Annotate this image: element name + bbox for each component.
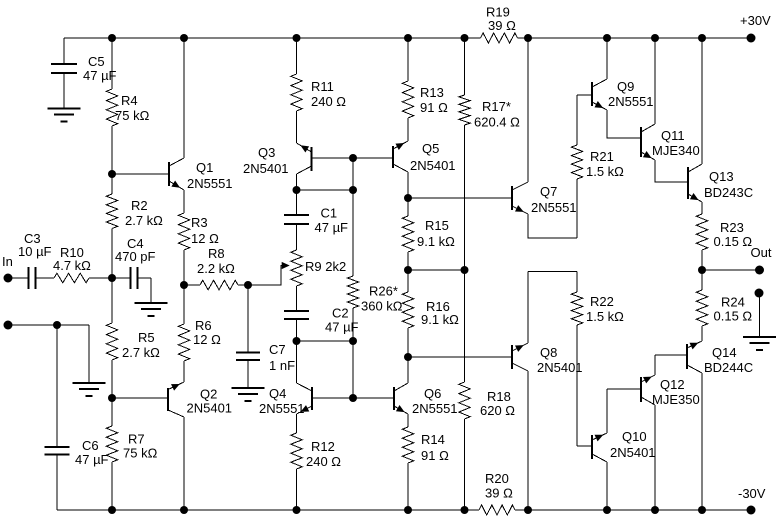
- svg-text:0.15 Ω: 0.15 Ω: [714, 234, 753, 249]
- svg-text:47 µF: 47 µF: [75, 452, 109, 467]
- svg-text:R13: R13: [420, 85, 444, 100]
- svg-text:12 Ω: 12 Ω: [193, 332, 221, 347]
- svg-text:91 Ω: 91 Ω: [421, 448, 449, 463]
- svg-text:12 Ω: 12 Ω: [191, 231, 219, 246]
- svg-text:Q8: Q8: [540, 345, 557, 360]
- svg-text:39 Ω: 39 Ω: [488, 18, 516, 33]
- svg-text:R4: R4: [121, 93, 138, 108]
- svg-text:0.15 Ω: 0.15 Ω: [714, 309, 753, 324]
- svg-text:C6: C6: [82, 438, 99, 453]
- svg-text:4.7 kΩ: 4.7 kΩ: [53, 258, 91, 273]
- svg-text:2N5401: 2N5401: [610, 445, 656, 460]
- svg-text:2N5401: 2N5401: [537, 360, 583, 375]
- svg-text:Q3: Q3: [258, 145, 275, 160]
- svg-text:Q4: Q4: [269, 386, 286, 401]
- svg-text:620.4 Ω: 620.4 Ω: [474, 115, 520, 130]
- svg-text:2.2 kΩ: 2.2 kΩ: [197, 261, 235, 276]
- svg-text:75 kΩ: 75 kΩ: [123, 446, 158, 461]
- svg-text:2N5401: 2N5401: [187, 401, 233, 416]
- svg-text:R3: R3: [191, 215, 208, 230]
- svg-text:2N5401: 2N5401: [410, 158, 456, 173]
- svg-text:240 Ω: 240 Ω: [306, 454, 341, 469]
- svg-text:470 pF: 470 pF: [115, 249, 156, 264]
- svg-text:MJE340: MJE340: [652, 143, 700, 158]
- svg-text:BD244C: BD244C: [704, 360, 753, 375]
- svg-text:9.1 kΩ: 9.1 kΩ: [421, 312, 459, 327]
- svg-text:R17*: R17*: [482, 99, 511, 114]
- svg-text:R14: R14: [421, 432, 445, 447]
- svg-text:R21: R21: [590, 149, 614, 164]
- svg-text:1 nF: 1 nF: [269, 358, 295, 373]
- svg-text:2N5551: 2N5551: [259, 401, 305, 416]
- svg-text:2N5551: 2N5551: [187, 176, 233, 191]
- svg-text:240 Ω: 240 Ω: [311, 94, 346, 109]
- svg-text:Q2: Q2: [200, 387, 217, 402]
- svg-text:47 µF: 47 µF: [83, 68, 117, 83]
- svg-text:Out: Out: [751, 245, 772, 260]
- svg-text:Q13: Q13: [709, 169, 734, 184]
- svg-text:R15: R15: [425, 218, 449, 233]
- svg-text:MJE350: MJE350: [652, 392, 700, 407]
- svg-text:10 µF: 10 µF: [18, 244, 52, 259]
- svg-text:R18: R18: [487, 389, 511, 404]
- svg-text:47 µF: 47 µF: [325, 320, 359, 335]
- svg-text:C1: C1: [321, 206, 338, 221]
- svg-text:Q9: Q9: [617, 79, 634, 94]
- svg-text:C2: C2: [332, 306, 349, 321]
- svg-text:1.5 kΩ: 1.5 kΩ: [586, 309, 624, 324]
- svg-text:R23: R23: [720, 220, 744, 235]
- svg-text:BD243C: BD243C: [704, 185, 753, 200]
- svg-text:R9 2k2: R9 2k2: [305, 259, 346, 274]
- svg-text:Q6: Q6: [424, 386, 441, 401]
- svg-text:47 µF: 47 µF: [315, 220, 349, 235]
- svg-text:R2: R2: [131, 198, 148, 213]
- svg-text:In: In: [2, 254, 13, 269]
- svg-text:Q11: Q11: [661, 128, 685, 143]
- svg-text:C5: C5: [88, 54, 105, 69]
- svg-text:R20: R20: [485, 471, 509, 486]
- svg-text:Q12: Q12: [660, 377, 685, 392]
- svg-text:C7: C7: [269, 342, 286, 357]
- svg-text:620 Ω: 620 Ω: [480, 403, 515, 418]
- svg-text:R7: R7: [128, 432, 145, 447]
- svg-text:R12: R12: [311, 439, 335, 454]
- svg-text:2N5401: 2N5401: [243, 161, 289, 176]
- svg-text:+30V: +30V: [740, 13, 771, 28]
- svg-text:2N5551: 2N5551: [412, 401, 458, 416]
- svg-text:75 kΩ: 75 kΩ: [115, 108, 150, 123]
- svg-text:Q7: Q7: [540, 184, 557, 199]
- svg-text:R24: R24: [721, 295, 745, 310]
- svg-text:2N5551: 2N5551: [531, 200, 577, 215]
- svg-text:2.7 kΩ: 2.7 kΩ: [125, 213, 163, 228]
- svg-text:R22: R22: [590, 294, 614, 309]
- svg-text:R26*: R26*: [369, 284, 398, 299]
- svg-text:R8: R8: [208, 246, 225, 261]
- svg-text:Q5: Q5: [422, 141, 439, 156]
- svg-text:9.1 kΩ: 9.1 kΩ: [417, 234, 455, 249]
- svg-text:R5: R5: [138, 330, 155, 345]
- svg-text:R6: R6: [195, 318, 212, 333]
- svg-text:Q1: Q1: [196, 160, 213, 175]
- svg-text:-30V: -30V: [738, 486, 766, 501]
- svg-text:Q10: Q10: [622, 429, 647, 444]
- svg-text:39 Ω: 39 Ω: [485, 486, 513, 501]
- svg-text:2.7 kΩ: 2.7 kΩ: [122, 345, 160, 360]
- svg-text:1.5 kΩ: 1.5 kΩ: [586, 164, 624, 179]
- svg-text:91 Ω: 91 Ω: [420, 100, 448, 115]
- svg-text:360 kΩ: 360 kΩ: [361, 299, 403, 314]
- svg-text:R11: R11: [311, 79, 334, 94]
- svg-text:2N5551: 2N5551: [608, 94, 654, 109]
- svg-text:Q14: Q14: [712, 345, 737, 360]
